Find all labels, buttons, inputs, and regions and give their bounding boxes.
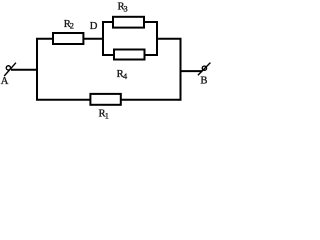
svg-text:A: A [1,76,9,87]
svg-text:2: 2 [70,22,74,31]
svg-text:4: 4 [123,72,128,81]
svg-text:3: 3 [124,4,128,13]
svg-text:1: 1 [105,111,109,120]
svg-text:B: B [200,76,207,87]
svg-text:D: D [90,21,98,32]
